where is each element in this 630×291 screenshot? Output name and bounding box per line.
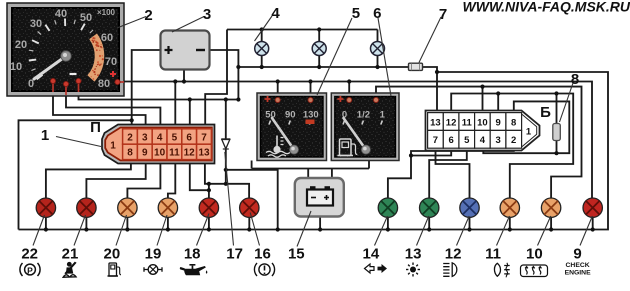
svg-text:9: 9 [495, 117, 500, 128]
svg-text:11: 11 [485, 246, 501, 263]
svg-text:P: P [27, 265, 33, 275]
pointer line for label 5 [317, 18, 352, 95]
icon parking brake (P) [20, 263, 40, 276]
wire battery box bottom to rail [319, 216, 321, 230]
svg-text:16: 16 [254, 246, 271, 263]
svg-text:13: 13 [405, 246, 422, 263]
wire diode branch to bottom rail [226, 170, 278, 230]
label 16 [254, 246, 271, 263]
icon side lights (sun) [406, 263, 420, 277]
svg-text:13: 13 [430, 117, 441, 128]
pointer line for label 16 [250, 213, 259, 246]
icon seat belt [63, 262, 76, 278]
lamp 11 low beam [500, 198, 519, 217]
wire under-gauge bus [252, 168, 369, 170]
pointer line for label 8 [560, 83, 574, 122]
pointer line for label 9 [580, 216, 592, 246]
label 3 [203, 6, 211, 23]
svg-text:5: 5 [172, 132, 178, 143]
lamp 20 fuel reserve [118, 198, 137, 217]
svg-text:22: 22 [21, 246, 38, 263]
pointer line for label 19 [157, 215, 167, 246]
svg-text:12: 12 [446, 117, 457, 128]
label 12 [445, 246, 462, 263]
pointer line for label 4 [255, 16, 273, 41]
svg-text:20: 20 [104, 246, 121, 263]
wire connector B pin 2 to node on lamp-14 wire [411, 149, 514, 156]
wire connector B pin 7 to lamp 12 [436, 149, 470, 199]
temperature gauge (item 5) [257, 93, 327, 161]
lamp 12 high beam [460, 198, 479, 217]
pointer line for label 14 [375, 216, 388, 246]
wire connector P pin 9 to lamp 21 [86, 161, 145, 199]
fuel gauge (item 6) [331, 93, 399, 161]
svg-text:21: 21 [62, 246, 79, 263]
svg-text:50: 50 [265, 110, 276, 121]
wire lamp 18 stub to node [208, 184, 210, 199]
pointer line for label 10 [538, 216, 551, 246]
pointer line for label 20 [116, 215, 127, 246]
label 14 [363, 246, 380, 263]
label 9 [573, 246, 581, 263]
wire node to diode and down to junction [225, 100, 227, 184]
svg-text:30: 30 [30, 18, 42, 30]
wire left ground loop from stabilizer-plus node to bottom rail [19, 120, 132, 229]
icon fuel pump [108, 263, 122, 276]
svg-text:12: 12 [184, 148, 196, 159]
svg-text:8: 8 [571, 71, 579, 88]
label B [540, 104, 551, 121]
svg-text:11: 11 [169, 148, 180, 159]
wire element 8 top riser [556, 94, 558, 125]
label 2 [144, 7, 152, 24]
element 8 (resistor) [553, 124, 561, 141]
svg-text:60: 60 [101, 32, 113, 44]
wire connector P pin 8 to lamp 22 [46, 161, 131, 199]
svg-text:3: 3 [495, 135, 500, 146]
svg-text:19: 19 [145, 246, 162, 263]
svg-text:3: 3 [142, 132, 148, 143]
label 22 [21, 246, 38, 263]
wire temp gauge terminal 2 riser [310, 82, 312, 98]
svg-text:20: 20 [15, 39, 27, 51]
pointer line for label 21 [74, 215, 86, 246]
svg-text:90: 90 [285, 110, 296, 121]
svg-text:10: 10 [477, 117, 488, 128]
svg-text:7: 7 [439, 6, 447, 23]
lamp 10 rear defrost [541, 198, 560, 217]
svg-text:50: 50 [80, 12, 92, 24]
icon brake warning [254, 263, 274, 276]
label 19 [145, 246, 162, 263]
svg-text:70: 70 [105, 56, 117, 68]
wire fuel gauge terminal 1 riser [348, 82, 350, 98]
wire element 8 bottom to connector B pins 4 and 8 [483, 101, 569, 153]
wire connector B pin 10 riser [482, 87, 484, 113]
label 7 [439, 6, 447, 23]
svg-text:10: 10 [526, 246, 543, 263]
svg-text:5: 5 [352, 5, 360, 22]
pointer line for label 11 [497, 216, 510, 246]
wire from lamp rail down to connector P pin 7 [205, 30, 227, 128]
pointer line for label 17 [225, 152, 234, 246]
pointer line for label 1 [56, 137, 101, 147]
wire connector P pin 10 to lamp 20 [127, 161, 160, 199]
svg-text:14: 14 [363, 246, 380, 263]
icon low beam [494, 263, 509, 278]
svg-text:1: 1 [380, 110, 386, 121]
label P [90, 119, 101, 136]
svg-text:П: П [90, 119, 101, 136]
tachometer gauge (item 2) [7, 3, 124, 96]
wire temp gauge terminal 1 riser [277, 82, 279, 98]
svg-text:1: 1 [41, 127, 49, 144]
label 15 [288, 246, 305, 263]
svg-text:2: 2 [511, 135, 516, 146]
wire tachometer terminal 3 rail [79, 81, 239, 100]
wire fuel gauge terminal 2 joining pin 10 hook to lamp 10 [376, 87, 582, 199]
wire tachometer terminal 2 to connector P pin 4 [66, 84, 160, 128]
svg-text:13: 13 [198, 148, 210, 159]
svg-text:7: 7 [201, 132, 207, 143]
wire lamp 4 group stems [262, 30, 378, 68]
svg-text:10: 10 [10, 61, 22, 73]
wire connector B pin 12 hook to lamp 11 [451, 94, 573, 199]
pin 1 of connector B [526, 127, 532, 138]
wire battery box top left to temp gauge bottom [252, 161, 309, 179]
icon high beam [443, 263, 457, 277]
svg-text:15: 15 [288, 246, 305, 263]
svg-text:80: 80 [98, 78, 110, 90]
charge indicator relay box (item 15) [295, 178, 344, 217]
wire lamp 13 to connector B pin 5 [429, 149, 467, 199]
wire fuse rail into connector B pin 13 [238, 67, 437, 113]
svg-text:11: 11 [462, 117, 473, 128]
diode limiter near connector P (item 17 target) [221, 139, 230, 149]
lamp 9 check engine [583, 198, 602, 217]
svg-text:ENGINE: ENGINE [565, 270, 592, 277]
lamp 14 turn signals [378, 198, 397, 217]
pointer line for label 13 [417, 216, 429, 246]
label 5 [352, 5, 360, 22]
svg-text:2: 2 [144, 7, 152, 24]
svg-text:9: 9 [142, 148, 148, 159]
svg-text:12: 12 [445, 246, 462, 263]
label 20 [104, 246, 121, 263]
label 10 [526, 246, 543, 263]
pointer line for label 12 [457, 216, 470, 246]
label 1 [41, 127, 49, 144]
wire lamp 14 to connector B pin 6 [388, 149, 451, 199]
lamp 16 brake warning [240, 198, 259, 217]
lamp 13 side lights [420, 198, 439, 217]
lamp 21 seat belt [77, 198, 96, 217]
label 11 [485, 246, 501, 263]
icon rear window defroster [521, 265, 548, 277]
tachometer terminals [50, 78, 124, 95]
label 6 [373, 5, 381, 22]
svg-text:3: 3 [203, 6, 211, 23]
svg-text:4: 4 [157, 132, 163, 143]
svg-text:1: 1 [526, 127, 532, 138]
svg-text:CHECK: CHECK [566, 262, 590, 269]
lamp 19 exterior light [158, 198, 177, 217]
wire bottom lamp stems to common rail [46, 217, 593, 230]
svg-text:4: 4 [480, 135, 486, 146]
icon check engine text [565, 262, 592, 277]
svg-text:1: 1 [110, 141, 116, 152]
svg-text:4: 4 [271, 5, 280, 22]
lamp 18 oil pressure [199, 198, 218, 217]
wire tachometer terminal 1 to connector P pin 3 [53, 81, 146, 128]
illumination lamps (item 4) [255, 42, 385, 56]
label 13 [405, 246, 422, 263]
voltage stabilizer box (item 3) [161, 31, 210, 70]
pointer line for label 6 [378, 18, 391, 96]
svg-text:9: 9 [573, 246, 581, 263]
wire connector B pin 9 riser [497, 94, 499, 113]
label 21 [62, 246, 79, 263]
svg-text:×100: ×100 [97, 8, 116, 17]
label 17 [226, 246, 243, 263]
wire battery box top right to fuel gauge bottom [332, 161, 369, 179]
svg-text:6: 6 [448, 135, 453, 146]
svg-text:10: 10 [154, 148, 166, 159]
pointer line for label 22 [33, 215, 45, 246]
svg-text:Б: Б [540, 104, 551, 121]
svg-text:1/2: 1/2 [357, 110, 370, 121]
svg-text:6: 6 [186, 132, 192, 143]
svg-text:6: 6 [373, 5, 381, 22]
pointer line for label 18 [197, 214, 210, 246]
svg-text:5: 5 [464, 135, 470, 146]
wire stabilizer plus to connector P pin 2 [132, 50, 161, 128]
wire branch +12V rail to connector P pin 5 [174, 82, 176, 128]
site url text [463, 0, 630, 15]
svg-text:7: 7 [433, 135, 438, 146]
lamp 22 parking brake [36, 198, 55, 217]
svg-text:40: 40 [55, 8, 67, 20]
fuse (item 7) [409, 63, 423, 70]
pointer line for label 3 [172, 17, 204, 33]
label 18 [184, 246, 201, 263]
wire connector P pin 13 along to lamp 16 [205, 161, 249, 199]
svg-text:8: 8 [127, 148, 133, 159]
icon exterior lamp check [144, 265, 162, 275]
wire connector P pin 12 to lamp 18 node [190, 161, 209, 191]
wire branch to connector P pin 6 [189, 100, 191, 128]
svg-text:18: 18 [184, 246, 201, 263]
wire +12V rail from tachometer plus terminal to lamp 9 [118, 82, 593, 199]
connector P (item 1) [102, 125, 215, 164]
svg-text:17: 17 [226, 246, 243, 263]
pointer line for label 2 [117, 17, 146, 29]
wire stabilizer bottom terminal to +12V rail [183, 70, 185, 82]
pointer line for label 7 [419, 17, 441, 63]
wire connector P pin 11 to lamp 19 [168, 161, 175, 199]
wire stabilizer minus down to node on tach rail [210, 50, 239, 100]
label 8 [571, 71, 579, 88]
icon oil pressure [180, 264, 208, 275]
pointer line for label 15 [297, 211, 311, 247]
connector B [426, 111, 540, 151]
wire bottom common rail with right-side loop up to fuse node [19, 72, 609, 230]
svg-text:WWW.NIVA-FAQ.MSK.RU: WWW.NIVA-FAQ.MSK.RU [463, 0, 630, 15]
red terminal stubs on gauge risers [278, 94, 376, 100]
svg-text:130: 130 [303, 110, 319, 121]
svg-text:8: 8 [511, 117, 516, 128]
svg-text:2: 2 [127, 132, 133, 143]
wire lamp rail top for illumination lamps 4 [227, 29, 378, 31]
icon turn signals [365, 264, 388, 273]
label 4 [271, 5, 280, 22]
